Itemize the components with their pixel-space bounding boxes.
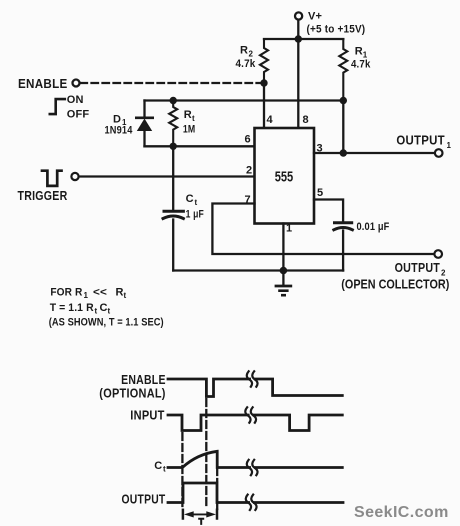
resistor R2	[260, 39, 268, 83]
svg-text:R: R	[240, 45, 248, 57]
terminal TRIGGER	[71, 173, 78, 180]
wire upper rail (Rt/R1)	[145, 99, 344, 101]
svg-text:OFF: OFF	[67, 108, 90, 120]
svg-text:C: C	[154, 460, 162, 472]
timing dashed line enable edge	[205, 399, 207, 509]
terminal ENABLE	[73, 80, 80, 87]
capacitor Ct	[163, 211, 183, 270]
svg-text:C: C	[100, 302, 108, 314]
waveform OUTPUT trace	[168, 483, 249, 503]
wire lower rail to pin 6	[145, 145, 255, 147]
svg-text:4: 4	[267, 114, 274, 126]
wire pin 3 to OUTPUT1	[314, 152, 435, 154]
svg-text:(OPEN COLLECTOR): (OPEN COLLECTOR)	[341, 277, 449, 292]
wire TRIGGER to pin 2	[79, 175, 254, 177]
junction pin3 dot	[340, 149, 347, 156]
svg-text:1M: 1M	[183, 124, 196, 136]
svg-text:R: R	[184, 109, 192, 121]
tick T left	[182, 510, 185, 519]
wire V+ stem	[297, 20, 299, 39]
svg-text:t: t	[163, 465, 166, 474]
junction R1 bottom dot	[340, 97, 347, 104]
svg-text:1: 1	[84, 291, 89, 300]
symbol TRIGGER pulse	[42, 171, 62, 186]
svg-text:8: 8	[303, 114, 309, 126]
svg-text:OUTPUT: OUTPUT	[396, 133, 445, 148]
svg-text:ENABLE: ENABLE	[18, 76, 68, 91]
resistor Rt	[169, 101, 177, 147]
resistor R1	[339, 39, 347, 101]
junction R2 bottom dot	[260, 79, 267, 86]
break INPUT	[245, 407, 256, 422]
wire V+ dot to pin 8	[297, 39, 299, 128]
svg-text:(OPTIONAL): (OPTIONAL)	[99, 386, 165, 401]
svg-text:R: R	[355, 46, 363, 58]
wire ground rail	[173, 269, 343, 271]
label T	[198, 518, 204, 525]
wire ENABLE dashed	[81, 82, 261, 84]
junction Rt bottom dot	[170, 143, 177, 150]
svg-text:ON: ON	[67, 94, 84, 106]
tick T right	[216, 510, 219, 519]
break Ct	[247, 460, 258, 475]
wire pin 7 loop to OUTPUT2	[212, 204, 434, 255]
svg-text:TRIGGER: TRIGGER	[18, 188, 68, 203]
break ENABLE	[247, 371, 258, 386]
svg-text:t: t	[124, 291, 127, 300]
svg-text:1: 1	[286, 223, 292, 235]
timing dashed line t1	[216, 469, 218, 481]
wire V+ rail	[264, 38, 343, 40]
svg-text:OUTPUT: OUTPUT	[395, 260, 441, 275]
svg-text:t: t	[195, 198, 198, 207]
junction ground dot	[280, 267, 288, 275]
svg-text:C: C	[186, 193, 194, 205]
svg-text:4.7k: 4.7k	[351, 59, 371, 71]
svg-text:5: 5	[317, 187, 323, 199]
wire pin 1 down	[282, 224, 284, 271]
svg-text:(AS SHOWN, T = 1.1 SEC): (AS SHOWN, T = 1.1 SEC)	[49, 317, 164, 329]
svg-text:555: 555	[275, 169, 294, 186]
svg-text:INPUT: INPUT	[130, 408, 164, 423]
svg-text:0.01 μF: 0.01 μF	[357, 221, 390, 233]
svg-text:T = 1.1 R: T = 1.1 R	[50, 302, 94, 314]
svg-text:1 μF: 1 μF	[186, 209, 204, 221]
svg-text:V+: V+	[308, 11, 322, 23]
IC U1 555 box	[255, 128, 315, 224]
svg-text:R: R	[116, 287, 124, 299]
svg-text:4.7k: 4.7k	[236, 58, 257, 70]
wire pin 5 stub	[314, 200, 343, 222]
wire R1 bottom to pin3 node	[342, 101, 344, 154]
waveform INPUT trace	[168, 415, 248, 431]
break OUTPUT	[246, 495, 257, 510]
ground	[276, 271, 291, 296]
capacitor 0.01uF	[334, 223, 353, 271]
svg-text:(+5 to +15V): (+5 to +15V)	[307, 24, 366, 36]
symbol ON/OFF step	[50, 99, 65, 114]
T arrow	[184, 511, 216, 517]
terminal OUTPUT1	[435, 149, 443, 157]
junction Rt top dot	[170, 97, 177, 104]
svg-text:t: t	[108, 307, 111, 316]
svg-text:OUTPUT: OUTPUT	[122, 492, 166, 507]
terminal V+	[295, 12, 302, 19]
junction V+ rail dot	[295, 35, 302, 42]
svg-text:6: 6	[245, 134, 251, 146]
wire R2 to pin 4	[263, 83, 265, 128]
terminal OUTPUT2	[434, 250, 442, 258]
svg-text:SeekIC.com: SeekIC.com	[354, 504, 449, 521]
svg-text:<<: <<	[93, 287, 107, 299]
wire Rt junction down to Ct	[172, 146, 174, 210]
svg-text:1: 1	[447, 141, 452, 150]
svg-text:FOR R: FOR R	[50, 287, 82, 299]
waveform Ct trace	[168, 451, 250, 467]
svg-text:t: t	[192, 114, 195, 123]
diode D1	[136, 101, 152, 147]
svg-text:1N914: 1N914	[105, 125, 134, 137]
waveform ENABLE trace	[168, 379, 250, 397]
svg-text:t: t	[95, 307, 98, 316]
timing dashed line t0	[181, 433, 183, 508]
svg-text:2: 2	[246, 165, 252, 177]
